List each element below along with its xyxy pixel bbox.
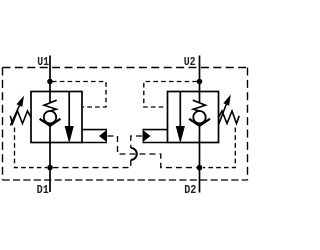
wire: main line U2-D2: [199, 56, 201, 193]
junction node D2 pilot tap: [197, 165, 203, 171]
pilot line crossover hop: [131, 148, 137, 160]
check valve spring CV2: [193, 100, 206, 111]
pilot piston port CV2: [143, 130, 168, 143]
flow arrow CV2: [176, 92, 185, 144]
check valve ball CV1: [44, 111, 56, 123]
adjustment arrow CV2: [219, 95, 231, 125]
check valve seat CV1: [40, 119, 61, 126]
check valve seat CV2: [189, 119, 210, 126]
junction node D1 pilot tap: [47, 165, 53, 171]
adjustable relief spring CV1: [10, 111, 31, 124]
internal pilot line CV1 (from U1 node): [52, 82, 106, 108]
junction node U2 pilot tap: [197, 79, 203, 85]
check valve ball CV2: [193, 111, 205, 123]
spring drain line CV1 (to D1 node): [15, 128, 48, 168]
pilot piston port CV1: [82, 130, 107, 143]
svg-text:U1: U1: [37, 56, 49, 69]
counterbalance valve body CV1: [31, 92, 82, 143]
wire: main line U1-D1: [49, 56, 51, 193]
spring drain line CV2 (to D2 node): [203, 128, 235, 168]
svg-text:D2: D2: [184, 184, 196, 197]
flow arrow CV1: [65, 92, 74, 144]
svg-text:U2: U2: [184, 56, 196, 69]
external pilot line CV2 (from D1 node, crossing): [53, 136, 142, 168]
junction node U1 pilot tap: [47, 79, 53, 85]
internal pilot line CV2 (from U2 node): [144, 82, 197, 108]
external pilot line CV1 (from D2 node, crossing): [108, 136, 197, 168]
svg-text:D1: D1: [37, 184, 49, 197]
counterbalance valve body CV2: [168, 92, 219, 143]
adjustment arrow CV1: [10, 96, 24, 126]
check valve spring CV1: [44, 100, 57, 111]
adjustable relief spring CV2: [219, 111, 240, 124]
manifold boundary (dashed enclosure): [3, 68, 248, 181]
